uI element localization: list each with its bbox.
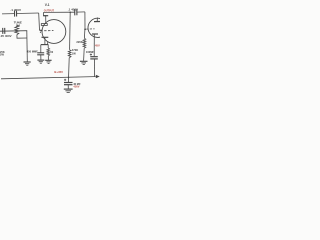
wire tuning line (left, y=31) [0,30,27,33]
cathode of V1 [44,37,46,44]
wire B+ top line [44,11,75,13]
ground for R2 [45,59,51,61]
capacitor C2 (series on tuning line) [2,28,4,34]
plate riser V2 [96,18,98,22]
capacitor C6 electrolytic to ground [64,82,73,84]
plus sign C7 [90,54,92,56]
svg-text:V-1: V-1 [45,3,50,7]
plate of V2 [94,21,100,23]
capacitor C4 (cathode bypass to ground) [40,45,42,53]
svg-text:B+45V: B+45V [54,70,63,74]
wire long vertical with R3 [69,12,72,49]
capacitor C3 (series on B+ line) [74,9,76,15]
svg-text:.05 400V: .05 400V [0,34,12,38]
svg-text:470K: 470K [72,48,78,52]
ground for C6 [64,88,73,90]
tube V1 envelope [42,20,66,44]
node tick below grid corner [39,32,41,33]
grid dashes V2 [86,28,94,30]
svg-text:.1 400V: .1 400V [10,8,22,12]
svg-text:220K: 220K [76,40,82,44]
wire riser from input line down to grid of V1 [39,13,42,30]
capacitor C1 (series on input line) [14,11,16,17]
node dot grid V2 [84,28,86,30]
ground (left) [24,61,31,63]
wire cathode lead from circle [47,42,49,44]
resistor R3 [68,50,71,58]
svg-text:100MF: 100MF [86,50,94,54]
resistor R2 (cathode) [47,45,49,48]
tube V2 envelope [88,18,107,37]
cathode bar V2 [92,33,98,35]
node grid junction dashes into tube [40,30,53,32]
arrow battery [95,76,96,78]
wire plate riser to B+ line [44,12,46,23]
svg-text:1M: 1M [16,23,21,27]
grid-left bar of V1 [42,36,49,38]
potentiometer R1 TUNE 1M [15,25,19,35]
svg-text:2W: 2W [0,53,4,57]
wire cathode V2 down [93,34,95,56]
svg-text:OUTPUT: OUTPUT [44,9,55,12]
svg-text:1W: 1W [72,52,76,56]
plate of V1 [41,24,47,26]
node dot rail junction [68,77,70,79]
wire pot wiper to down bus [17,35,27,39]
cathode bar of V1 [41,44,48,46]
wire corner from B+ line down to grid of V2 [84,12,86,30]
node dot B+ [69,12,71,14]
svg-text:.1 400V: .1 400V [68,7,78,11]
wire top-left input line [2,13,14,15]
wire bottom rail [1,77,95,79]
capacitor C7 electrolytic [90,56,98,58]
ground for R4 [80,60,88,62]
ground for C4 [37,59,44,61]
svg-text:450 MMF: 450 MMF [27,49,38,53]
svg-text:450V: 450V [73,84,79,88]
svg-text:50: 50 [50,51,53,54]
plus sign C6 [64,79,66,81]
svg-text:45V: 45V [95,44,100,48]
resistor R4 [83,29,86,38]
wire vertical from tuning line to ground [26,31,29,62]
wire C7 down to rail [93,59,95,77]
